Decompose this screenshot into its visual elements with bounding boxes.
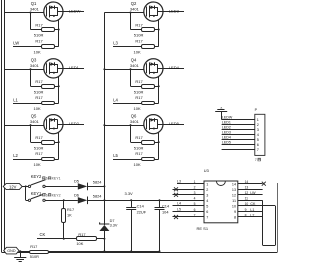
svg-text:5: 5 xyxy=(257,138,259,142)
pin number 5 inside (U3) xyxy=(206,205,208,209)
svg-text:3: 3 xyxy=(206,194,208,198)
wire gate pullup vert Q5 xyxy=(30,125,32,142)
label R17 (Q5 upper) xyxy=(35,135,43,140)
svg-text:R17: R17 xyxy=(35,22,43,27)
wire CK xyxy=(37,238,76,240)
junction gate Q4 xyxy=(130,68,132,70)
pin number 3 (P1) xyxy=(257,128,259,132)
connector P1 body xyxy=(255,114,265,155)
label Q6 value 3401 xyxy=(130,119,140,124)
svg-text:R17: R17 xyxy=(67,207,74,212)
wire GND to 510R xyxy=(19,251,30,253)
capacitor C14 104 xyxy=(155,200,165,251)
resistor R17 510R (Q1) xyxy=(31,28,59,32)
label 10K (Q2) xyxy=(134,49,141,54)
wire LEDW output xyxy=(63,11,84,13)
pin number 13 outside (U3) xyxy=(245,186,249,190)
svg-text:L1: L1 xyxy=(13,97,18,102)
label KEY2 xyxy=(31,174,42,179)
svg-text:6: 6 xyxy=(206,210,208,214)
svg-text:12: 12 xyxy=(232,194,236,198)
pin number 11 inside (U3) xyxy=(232,199,236,203)
svg-text:5824: 5824 xyxy=(93,193,102,198)
svg-text:L5: L5 xyxy=(113,153,118,158)
svg-text:D6: D6 xyxy=(74,192,79,197)
wire KEY1 to D6 xyxy=(45,200,78,202)
sheet border left (double line) xyxy=(2,0,5,253)
svg-text:RE S1: RE S1 xyxy=(197,226,209,231)
svg-text:510R: 510R xyxy=(30,254,39,259)
wire loop bottom xyxy=(263,245,276,247)
svg-text:LED4: LED4 xyxy=(222,136,231,140)
label 1K xyxy=(67,213,72,218)
wire gate Q3 xyxy=(4,69,43,71)
label 10K (Q6) xyxy=(134,162,141,167)
svg-text:R17: R17 xyxy=(135,38,143,43)
label 10K (Q5) xyxy=(34,162,41,167)
pin number 5 (P1) xyxy=(257,138,259,142)
pin number 6 inside (U3) xyxy=(206,210,208,214)
wire KEY2 to D5 xyxy=(45,186,78,188)
wire bus 3.3V vertical xyxy=(104,13,106,252)
svg-text:Q4: Q4 xyxy=(131,58,137,63)
junction Q5 drain-R xyxy=(58,141,60,143)
wire U3 pin11 loop left xyxy=(238,200,263,245)
wire drain vertical Q6 xyxy=(158,132,160,159)
svg-text:C14: C14 xyxy=(137,204,145,209)
junction rail bus xyxy=(103,250,105,252)
label R17 (Q3 lower) xyxy=(35,95,43,100)
pin number 14 outside (U3) xyxy=(245,180,249,184)
wire gate pullup vert Q3 xyxy=(30,69,32,86)
label R17 (Q2 lower) xyxy=(135,38,143,43)
wire U3 pin13 xyxy=(238,189,263,191)
label R17 (Q2 upper) xyxy=(135,22,143,27)
capacitor C14 22UF xyxy=(126,200,136,251)
wire P1 pin1 xyxy=(222,119,255,121)
label 7P note (7条) xyxy=(255,158,261,162)
wire P1 pin5 xyxy=(222,139,255,141)
wire gate Q4 xyxy=(104,69,143,71)
wire 12V down xyxy=(26,186,29,200)
net label L4 xyxy=(113,97,118,102)
wire gate pullup vert Q6 xyxy=(130,125,132,142)
label R17 (Q5 lower) xyxy=(35,151,43,156)
svg-text:U3: U3 xyxy=(204,168,209,173)
svg-text:10: 10 xyxy=(232,205,236,209)
svg-text:10K: 10K xyxy=(134,49,141,54)
pin number 8 outside (U3) xyxy=(245,213,247,217)
wire U3 pin2 nc xyxy=(173,189,205,191)
wire U3 pin8 L2 xyxy=(238,216,263,218)
label 10K (Q1) xyxy=(34,49,41,54)
pin number 4 outside (U3) xyxy=(194,197,196,201)
pin number 4 inside (U3) xyxy=(206,199,208,203)
label R17 (Q1 upper) xyxy=(35,22,43,27)
pin number 3 inside (U3) xyxy=(206,194,208,198)
net label L1 (pin9) xyxy=(250,208,254,212)
wire D6 to bus xyxy=(88,200,104,202)
net label L2 (pin8) xyxy=(250,213,254,217)
pin number 7 (P1) xyxy=(257,148,259,152)
transistor Q1 (AO3401) xyxy=(44,2,63,21)
junction CK 1K xyxy=(63,238,65,240)
resistor R17 510R (Q2) xyxy=(131,28,159,32)
wire D5 to bus xyxy=(88,186,104,188)
pin number 3 outside (U3) xyxy=(194,191,196,195)
net label CK (pin10) xyxy=(250,202,256,206)
svg-text:1K: 1K xyxy=(67,213,72,218)
wire drain vertical Q1 xyxy=(58,20,60,47)
svg-text:13: 13 xyxy=(232,188,236,192)
svg-text:4: 4 xyxy=(194,197,196,201)
resistor R17 10K (Q4) xyxy=(113,102,159,105)
svg-text:LW: LW xyxy=(250,191,256,195)
wire U3 pin10 CK loop top xyxy=(238,205,275,207)
switch KEY2 xyxy=(28,180,45,188)
label 10K (Q4) xyxy=(134,106,141,111)
label Q5 value 3401 xyxy=(30,119,40,124)
label P1 xyxy=(255,108,258,112)
pin number 9 inside (U3) xyxy=(234,210,236,214)
wire U3 pin14 nc xyxy=(238,183,263,185)
wire LED2 output xyxy=(63,124,84,126)
label KEY1 note (共6个KEY2) xyxy=(42,193,60,197)
label 10K (Q3) xyxy=(34,106,41,111)
wire P1 pin2 xyxy=(222,124,255,126)
svg-text:7: 7 xyxy=(206,216,208,220)
svg-text:6: 6 xyxy=(46,177,48,181)
net label LED2 (P1) xyxy=(222,126,231,130)
wire drain vertical Q2 xyxy=(158,20,160,47)
junction bus 3.3V node xyxy=(103,199,105,201)
label C14 (104) xyxy=(162,204,170,209)
label 510R (Q3) xyxy=(34,90,44,95)
wire gate pullup vert Q4 xyxy=(130,69,132,86)
junction Q6 drain-R xyxy=(158,141,160,143)
svg-text:CK: CK xyxy=(250,202,256,206)
wire loop right xyxy=(275,206,277,245)
label D5 xyxy=(74,178,79,183)
junction gate Q2 xyxy=(130,12,132,14)
net label LED3 (P1) xyxy=(222,131,231,135)
svg-text:10K: 10K xyxy=(134,106,141,111)
label Q1 refdes xyxy=(31,1,37,6)
svg-text:R17: R17 xyxy=(35,135,43,140)
net label L1 xyxy=(13,97,18,102)
svg-text:11: 11 xyxy=(232,199,236,203)
label RES1 xyxy=(197,226,209,231)
svg-text:3401: 3401 xyxy=(30,6,40,11)
label 22UF xyxy=(137,210,147,215)
junction Q1 drain-R xyxy=(58,29,60,31)
wire U3 pin12 LW xyxy=(238,194,263,196)
net label L3 xyxy=(113,41,118,46)
svg-text:7: 7 xyxy=(257,148,259,152)
wire 12V to keys xyxy=(22,186,28,188)
svg-text:L2: L2 xyxy=(13,153,18,158)
svg-text:3401: 3401 xyxy=(30,63,40,68)
svg-text:3401: 3401 xyxy=(130,6,140,11)
svg-text:R17: R17 xyxy=(135,79,143,84)
label R17 (Q4 upper) xyxy=(135,79,143,84)
net label LED5 (P1) xyxy=(222,141,231,145)
net label L3 (pin1) xyxy=(177,179,181,183)
svg-text:L3: L3 xyxy=(113,41,118,46)
pin number 9 outside (U3) xyxy=(245,208,247,212)
resistor R17 1K (vertical) xyxy=(62,200,66,238)
net label LW xyxy=(13,41,19,46)
pin number 4 (P1) xyxy=(257,133,259,137)
wire gate Q6 xyxy=(104,125,143,127)
svg-text:510R: 510R xyxy=(34,145,44,150)
junction Q4 drain-R xyxy=(158,85,160,87)
label 3.3V (D7) xyxy=(110,224,118,228)
svg-text:5: 5 xyxy=(206,205,208,209)
svg-text:LED4: LED4 xyxy=(169,65,180,70)
svg-text:3401: 3401 xyxy=(130,119,140,124)
svg-text:CK: CK xyxy=(40,232,46,237)
wire drain vertical Q4 xyxy=(158,77,160,104)
svg-text:R17: R17 xyxy=(78,232,85,237)
svg-text:3.3V: 3.3V xyxy=(110,224,118,228)
pin number 1 (P1) xyxy=(257,118,259,122)
label Q2 value 3401 xyxy=(130,6,140,11)
switch KEY1 xyxy=(28,194,45,202)
svg-text:LED2: LED2 xyxy=(69,121,80,126)
svg-text:Q6: Q6 xyxy=(131,113,137,118)
junction Q2 drain-R xyxy=(158,29,160,31)
svg-text:GND: GND xyxy=(7,249,16,253)
svg-text:3401: 3401 xyxy=(30,119,40,124)
svg-text:Q1: Q1 xyxy=(31,1,37,6)
svg-text:10K: 10K xyxy=(34,162,41,167)
junction GND symbol xyxy=(19,250,21,252)
wire LED4 output xyxy=(163,68,184,70)
wire gate Q5 xyxy=(4,125,43,127)
net label 3.3V xyxy=(125,191,134,196)
net label LED2 xyxy=(69,121,80,126)
junction gate Q3 xyxy=(30,68,32,70)
svg-text:R17: R17 xyxy=(135,95,143,100)
net label L4 (pin5) xyxy=(177,202,181,206)
junction 12V split xyxy=(25,185,27,187)
power port 12V xyxy=(3,183,22,189)
wire LED3 output xyxy=(163,11,184,13)
svg-text:Q3: Q3 xyxy=(31,58,37,63)
svg-text:510R: 510R xyxy=(134,145,144,150)
resistor R17 510R (Q3) xyxy=(31,85,59,89)
svg-text:510R: 510R xyxy=(134,90,144,95)
svg-text:LED3: LED3 xyxy=(169,8,180,13)
svg-text:6: 6 xyxy=(46,193,48,197)
svg-text:LW: LW xyxy=(13,41,19,46)
net label LED5 xyxy=(169,121,180,126)
no-connect pin7 xyxy=(174,215,178,219)
chassis ground symbol xyxy=(215,107,227,119)
svg-text:R17: R17 xyxy=(135,22,143,27)
label 510R (GND row) xyxy=(30,254,39,259)
no-connect pin14 xyxy=(262,182,266,186)
junction bus row3 xyxy=(103,124,105,126)
svg-text:10K: 10K xyxy=(34,49,41,54)
junction rail C14b xyxy=(159,250,161,252)
pin number 7 outside (U3) xyxy=(194,213,196,217)
resistor R17 10K (Q6) xyxy=(113,158,159,161)
junction gate Q5 xyxy=(30,124,32,126)
power port GND xyxy=(4,247,19,254)
transistor Q4 (AO3401) xyxy=(144,59,163,78)
svg-text:D7: D7 xyxy=(110,219,115,223)
svg-text:510R: 510R xyxy=(34,90,44,95)
label Q3 refdes xyxy=(31,58,37,63)
label C14 (22UF) xyxy=(137,204,145,209)
svg-text:2: 2 xyxy=(206,188,208,192)
resistor R17 510R (GND row) xyxy=(30,251,105,254)
label KEY1 xyxy=(31,191,42,196)
svg-text:R17: R17 xyxy=(135,151,143,156)
net label LW (pin12) xyxy=(250,191,256,195)
diode D6 xyxy=(78,197,88,205)
svg-text:3.3V: 3.3V xyxy=(125,191,134,196)
transistor Q5 (AO3401) xyxy=(44,115,63,134)
svg-text:510R: 510R xyxy=(134,33,144,38)
junction gate Q6 xyxy=(130,124,132,126)
resistor R17 510R (Q6) xyxy=(131,141,159,145)
pin number 6 (P1) xyxy=(257,143,259,147)
wire U3 pin6 L5 xyxy=(173,211,205,213)
svg-text:R17: R17 xyxy=(30,244,37,249)
svg-text:12V: 12V xyxy=(9,184,17,189)
transistor Q2 (AO3401) xyxy=(144,2,163,21)
svg-text:L4: L4 xyxy=(177,202,181,206)
label R17 (Q6 upper) xyxy=(135,135,143,140)
junction gate Q1 xyxy=(30,12,32,14)
net label LED3 xyxy=(169,8,180,13)
wire LED5 output xyxy=(163,124,184,126)
label Q1 value 3401 xyxy=(30,6,40,11)
resistor R17 10K (CK row) xyxy=(77,237,105,241)
svg-text:R17: R17 xyxy=(35,79,43,84)
svg-text:LED2: LED2 xyxy=(222,126,231,130)
net label L2 xyxy=(13,153,18,158)
wire U3 pin7 nc xyxy=(173,216,205,218)
label 5824 (D6) xyxy=(93,193,102,198)
svg-text:5824: 5824 xyxy=(93,180,102,185)
label R17 (GND row) xyxy=(30,244,37,249)
junction 3.3V C14a xyxy=(130,199,132,201)
pin number 10 outside (U3) xyxy=(245,202,249,206)
net label L5 (pin6) xyxy=(177,207,181,211)
wire U3 pin9 L1 xyxy=(238,211,263,213)
label R17 (1K) xyxy=(67,207,74,212)
wire P1 pin6 xyxy=(222,144,255,146)
sheet border bottom xyxy=(2,252,277,254)
svg-text:LED3: LED3 xyxy=(222,131,231,135)
pin number 2 inside (U3) xyxy=(206,188,208,192)
zener diode D7 3.3V xyxy=(99,222,109,231)
label 510R (Q5) xyxy=(34,145,44,150)
resistor R17 510R (Q4) xyxy=(131,85,159,89)
svg-text:L5: L5 xyxy=(177,207,181,211)
resistor R17 10K (Q1) xyxy=(13,45,59,49)
wire gate Q2 xyxy=(104,12,143,14)
diode D5 xyxy=(78,183,88,191)
pin number 13 inside (U3) xyxy=(232,188,236,192)
svg-text:7: 7 xyxy=(255,158,257,162)
svg-text:KEY1: KEY1 xyxy=(52,177,61,181)
wire LED1 output xyxy=(63,68,84,70)
svg-text:10K: 10K xyxy=(134,162,141,167)
pin number 2 outside (U3) xyxy=(194,186,196,190)
svg-text:L3: L3 xyxy=(177,179,181,183)
svg-text:9: 9 xyxy=(234,210,236,214)
svg-text:C14: C14 xyxy=(162,204,170,209)
svg-text:L1: L1 xyxy=(250,208,254,212)
label Q6 refdes xyxy=(131,113,137,118)
label 510R (Q1) xyxy=(34,33,44,38)
svg-text:2: 2 xyxy=(257,123,259,127)
resistor R17 10K (Q5) xyxy=(13,158,59,161)
no-connect pin2 xyxy=(174,187,178,191)
transistor Q6 (AO3401) xyxy=(144,115,163,134)
svg-text:3: 3 xyxy=(257,128,259,132)
svg-text:LED5: LED5 xyxy=(222,141,231,145)
pin number 12 outside (U3) xyxy=(245,191,249,195)
wire U3 pin3 nc xyxy=(173,194,205,196)
pin number 12 inside (U3) xyxy=(232,194,236,198)
pin number 7 inside (U3) xyxy=(206,216,208,220)
label Q4 refdes xyxy=(131,58,137,63)
label 5824 (D5) xyxy=(93,180,102,185)
svg-text:Q2: Q2 xyxy=(131,1,137,6)
svg-text:R17: R17 xyxy=(35,95,43,100)
transistor Q3 (AO3401) xyxy=(44,59,63,78)
net label LED1 xyxy=(69,65,80,70)
pin number 5 outside (U3) xyxy=(194,202,196,206)
svg-text:LEDW: LEDW xyxy=(222,116,233,120)
pin number 2 (P1) xyxy=(257,123,259,127)
svg-text:10K: 10K xyxy=(76,241,83,246)
no-connect pin3 xyxy=(174,193,178,197)
wire P1 pin4 xyxy=(222,134,255,136)
net label LED4 (P1) xyxy=(222,136,231,140)
label 510R (Q2) xyxy=(134,33,144,38)
svg-text:D5: D5 xyxy=(74,178,79,183)
junction KEY1 1K tap xyxy=(63,199,65,201)
svg-text:KEY2: KEY2 xyxy=(52,193,61,197)
junction rail C14a xyxy=(130,250,132,252)
label D7 xyxy=(110,219,115,223)
wire gate Q1 xyxy=(4,12,43,14)
pin number 6 outside (U3) xyxy=(194,208,196,212)
svg-text:3401: 3401 xyxy=(130,63,140,68)
svg-text:LED1: LED1 xyxy=(69,65,80,70)
net label LED1 (P1) xyxy=(222,121,231,125)
svg-text:510R: 510R xyxy=(34,33,44,38)
junction 3.3V C14b xyxy=(159,199,161,201)
svg-text:1: 1 xyxy=(206,182,208,186)
svg-text:LED1: LED1 xyxy=(222,121,231,125)
wire ground rail xyxy=(104,251,159,253)
svg-text:LED5: LED5 xyxy=(169,121,180,126)
net label LEDW xyxy=(69,8,81,13)
label R17 (Q1 lower) xyxy=(35,38,43,43)
label 510R (Q6) xyxy=(134,145,144,150)
svg-text:10K: 10K xyxy=(34,106,41,111)
resistor R17 510R (Q5) xyxy=(31,141,59,145)
net label L5 xyxy=(113,153,118,158)
